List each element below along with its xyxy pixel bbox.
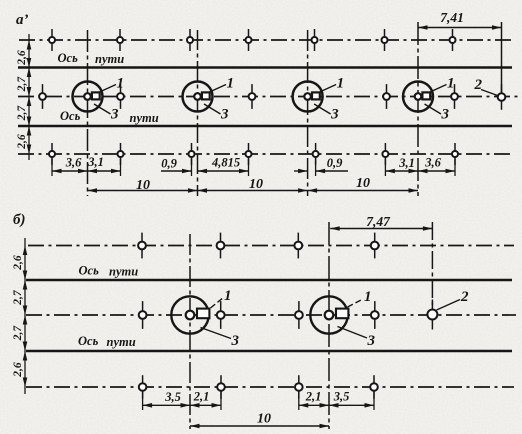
- svg-text:Ось: Ось: [60, 109, 81, 123]
- svg-text:3: 3: [220, 107, 229, 123]
- dimension 3,5 bottom b: [143, 404, 190, 406]
- svg-text:3,6: 3,6: [65, 156, 82, 170]
- junction box on post 1: [92, 92, 100, 99]
- svg-text:3: 3: [110, 107, 119, 123]
- svg-text:1: 1: [117, 76, 125, 92]
- dimension line 7,47 b: [330, 228, 432, 230]
- left dimension chain line section b: [24, 238, 26, 394]
- svg-text:1: 1: [364, 289, 372, 305]
- svg-text:2,7: 2,7: [16, 105, 28, 122]
- leader to label 3 at post 1b: [201, 328, 232, 339]
- leader to label 3 at post 3: [314, 104, 331, 114]
- junction box on post 4: [422, 92, 430, 99]
- anchor bolt hole of post 4 (item 3): [415, 93, 422, 100]
- dimension 0,9 bottom a: [161, 170, 192, 172]
- svg-text:7,47: 7,47: [366, 214, 391, 229]
- svg-text:пути: пути: [130, 111, 159, 125]
- center axis (middle dash-dot) section a: [18, 96, 518, 98]
- svg-text:2,6: 2,6: [12, 255, 24, 271]
- centerline through post 2 a: [197, 30, 199, 196]
- overhead line axis (top dash-dot) section a: [19, 39, 514, 41]
- dimension 3,6 bottom right a: [418, 170, 455, 172]
- middle row anchor circles section a: [42, 84, 44, 94]
- centerline through post 3 a: [307, 30, 309, 196]
- svg-text:3: 3: [367, 333, 376, 349]
- svg-text:3,5: 3,5: [164, 390, 181, 404]
- svg-text:2,6: 2,6: [12, 362, 24, 378]
- svg-text:3: 3: [330, 107, 339, 123]
- leader to label 3 at post 4: [425, 104, 442, 114]
- dimension 10 spans section a: [88, 190, 419, 192]
- rail line top (solid) section a: [18, 66, 512, 69]
- svg-text:0,9: 0,9: [161, 157, 177, 171]
- svg-text:пути: пути: [107, 335, 136, 349]
- svg-text:а’: а’: [16, 12, 29, 28]
- svg-text:2,6: 2,6: [16, 134, 28, 150]
- anchor bolt hole of post 2 (item 3): [194, 93, 201, 100]
- junction box on post 2: [202, 92, 210, 99]
- leader to label 1 at post 2: [210, 85, 227, 93]
- isolated support circle item 2 a: [501, 84, 503, 94]
- support post 1 (item 1) with foundation circle: [73, 82, 103, 112]
- svg-text:2,7: 2,7: [12, 325, 24, 342]
- leader to label 1 at post 2b (dashed): [348, 299, 364, 307]
- svg-text:3,5: 3,5: [333, 390, 350, 404]
- leader to label 3 at post 1: [94, 104, 111, 114]
- junction box on post 2b: [336, 309, 348, 319]
- svg-text:10: 10: [249, 177, 263, 192]
- svg-text:Ось: Ось: [78, 334, 99, 348]
- svg-text:1: 1: [227, 76, 235, 92]
- middle row anchor circles section b: [142, 301, 144, 312]
- leader to label 3 at post 2: [204, 104, 221, 114]
- svg-text:1: 1: [447, 76, 455, 92]
- anchor bolt hole of post 1 (item 3): [84, 93, 91, 100]
- dimension 2,1 bottom b: [190, 404, 221, 406]
- svg-text:3,1: 3,1: [87, 155, 104, 169]
- centerline through post 1 b: [189, 234, 191, 429]
- leader to label 2 a: [481, 90, 499, 97]
- svg-text:3,6: 3,6: [424, 156, 441, 170]
- support post 2 (item 1) with foundation circle: [183, 82, 213, 112]
- svg-text:7,41: 7,41: [440, 10, 464, 25]
- dimension 2,1 bottom right b: [299, 404, 329, 406]
- support post 2b (item 1) foundation circle: [310, 296, 347, 333]
- leader to label 2 b: [437, 300, 461, 311]
- svg-text:2,7: 2,7: [12, 289, 24, 306]
- anchor bolt hole of post 3 (item 3): [304, 93, 311, 100]
- rail line bottom (solid) section b: [26, 350, 512, 353]
- center axis (middle dash-dot) section b: [26, 314, 516, 316]
- anchor hole of post 1b (item 3): [186, 311, 195, 320]
- svg-text:Ось: Ось: [79, 264, 100, 278]
- dimension 3,1 bottom right a: [385, 170, 418, 172]
- svg-text:2,1: 2,1: [305, 390, 322, 404]
- dimension 4,815 bottom a: [198, 170, 249, 172]
- left dimension chain line section a: [28, 34, 30, 160]
- svg-text:2: 2: [474, 77, 483, 93]
- dimension 3,5 bottom right b: [329, 404, 374, 406]
- svg-text:1: 1: [224, 288, 232, 304]
- support post 4 (item 1) with foundation circle: [403, 82, 433, 112]
- dimension 3,1 bottom a: [88, 170, 121, 172]
- leader to label 1 at post 3: [320, 85, 337, 93]
- junction box on post 3: [312, 92, 320, 99]
- svg-text:10: 10: [257, 412, 271, 427]
- rail line top (solid) section b: [26, 279, 512, 282]
- anchor hole of post 2b (item 3): [325, 311, 334, 320]
- dimension 0,9 bottom right a: [294, 170, 308, 172]
- extension line through item 2 b: [431, 222, 433, 310]
- svg-text:3,1: 3,1: [398, 156, 415, 170]
- top row anchor circles section b: [141, 233, 143, 243]
- centerline through post 2 b: [328, 222, 330, 429]
- leader to label 1 at post 1: [100, 85, 117, 93]
- centerline through post 1 a: [87, 30, 89, 196]
- top row anchor circles section a: [51, 29, 53, 38]
- svg-text:4,815: 4,815: [211, 156, 240, 170]
- svg-text:1: 1: [337, 76, 345, 92]
- leader to label 1 at post 1b (dashed): [211, 298, 224, 309]
- svg-text:10: 10: [356, 176, 370, 191]
- bottom dash-dot axis section b: [26, 386, 514, 388]
- leader to label 3 at post 2b: [338, 327, 368, 339]
- dimension line 7,41 a: [418, 27, 502, 29]
- dimension 10 span section b: [190, 425, 329, 427]
- svg-text:2,7: 2,7: [16, 76, 28, 93]
- centerline through post 4 a: [417, 22, 419, 196]
- svg-text:2,1: 2,1: [193, 390, 210, 404]
- svg-text:0,9: 0,9: [327, 156, 343, 170]
- svg-text:10: 10: [136, 178, 150, 193]
- svg-text:2,6: 2,6: [16, 50, 28, 66]
- dimension 3,6 bottom a: [52, 170, 88, 172]
- leader to label 1 at post 4: [430, 85, 447, 93]
- svg-text:пути: пути: [109, 265, 138, 279]
- bottom dash-dot axis section a: [18, 153, 514, 155]
- svg-text:пути: пути: [95, 52, 124, 66]
- extension line right 7,41 a: [501, 22, 503, 94]
- bottom row anchor circles section a: [51, 143, 53, 152]
- overhead line axis (top dash-dot) section b: [28, 245, 514, 247]
- support post 1b (item 1) foundation circle: [171, 296, 208, 333]
- svg-text:б): б): [13, 212, 25, 228]
- support post 3 (item 1) with foundation circle: [293, 82, 323, 112]
- isolated support circle item 2 b: [431, 300, 433, 311]
- bottom row anchor circles section b: [142, 375, 144, 384]
- junction box on post 1b: [197, 309, 209, 319]
- svg-text:3: 3: [441, 107, 450, 123]
- rail line bottom (solid) section a: [18, 125, 512, 128]
- svg-text:2: 2: [460, 289, 469, 305]
- svg-text:Ось: Ось: [58, 51, 79, 65]
- svg-text:3: 3: [231, 333, 240, 349]
